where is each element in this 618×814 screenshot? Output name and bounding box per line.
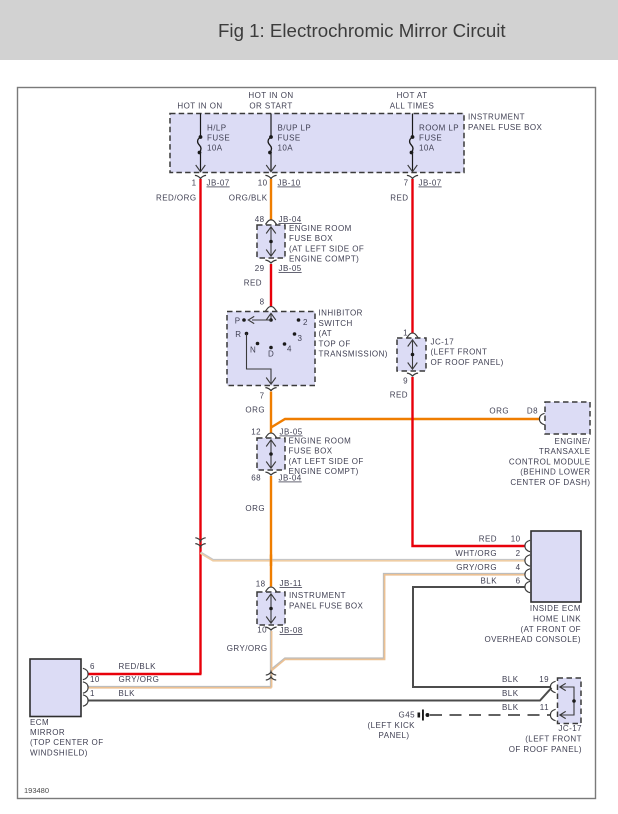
svg-text:10A: 10A xyxy=(278,144,294,153)
svg-text:FUSE BOX: FUSE BOX xyxy=(289,447,333,456)
svg-text:G45: G45 xyxy=(399,711,416,720)
svg-text:10: 10 xyxy=(511,535,521,544)
svg-text:ALL TIMES: ALL TIMES xyxy=(390,102,435,111)
svg-text:ENGINE ROOM: ENGINE ROOM xyxy=(289,437,352,446)
connector JC-17 dome pin 1 xyxy=(407,333,418,338)
fuse F1 connector cup xyxy=(195,175,206,178)
svg-text:HOT IN ON: HOT IN ON xyxy=(248,91,293,100)
svg-text:TRANSAXLE: TRANSAXLE xyxy=(539,447,591,456)
svg-text:10A: 10A xyxy=(419,144,435,153)
svg-text:R: R xyxy=(235,330,241,339)
fuse F1 H/LP xyxy=(198,135,203,154)
wire ORG (inhibitor to JB-05) xyxy=(270,392,272,434)
svg-text:OVERHEAD CONSOLE): OVERHEAD CONSOLE) xyxy=(484,635,581,644)
svg-text:6: 6 xyxy=(516,577,521,586)
connector JB-05 dome pin 12 xyxy=(265,433,276,438)
svg-text:(AT FRONT OF: (AT FRONT OF xyxy=(520,625,581,634)
svg-text:ENGINE ROOM: ENGINE ROOM xyxy=(289,224,352,233)
svg-text:ORG/BLK: ORG/BLK xyxy=(229,194,268,203)
svg-text:JB-08: JB-08 xyxy=(280,626,303,635)
svg-text:10A: 10A xyxy=(207,144,223,153)
svg-text:3: 3 xyxy=(298,334,303,343)
svg-text:BLK: BLK xyxy=(481,577,498,586)
svg-text:(AT LEFT SIDE OF: (AT LEFT SIDE OF xyxy=(289,457,364,466)
svg-text:1: 1 xyxy=(192,179,197,188)
svg-text:2: 2 xyxy=(516,549,521,558)
svg-text:68: 68 xyxy=(251,474,261,483)
connector JB-04 cup pin 29 xyxy=(265,260,276,263)
svg-text:HOME LINK: HOME LINK xyxy=(533,614,581,623)
svg-text:1: 1 xyxy=(403,329,408,338)
svg-text:MIRROR: MIRROR xyxy=(30,728,65,737)
svg-text:OR START: OR START xyxy=(249,102,292,111)
svg-text:JB-05: JB-05 xyxy=(280,428,303,437)
svg-text:29: 29 xyxy=(255,264,265,273)
connector JB-04 cup pin 68 xyxy=(265,472,276,475)
svg-text:INSIDE ECM: INSIDE ECM xyxy=(530,604,581,613)
svg-text:BLK: BLK xyxy=(119,689,136,698)
svg-text:BLK: BLK xyxy=(502,675,519,684)
svg-text:ROOM LP: ROOM LP xyxy=(419,124,459,133)
wire GRY/ORG tan xyxy=(88,575,525,688)
svg-text:PANEL): PANEL) xyxy=(379,731,410,740)
inhibitor pin 7 cup xyxy=(265,388,276,391)
svg-text:INSTRUMENT: INSTRUMENT xyxy=(289,591,346,600)
connector JB-04 dome pin 48 xyxy=(265,220,276,225)
svg-text:OF ROOF PANEL): OF ROOF PANEL) xyxy=(509,745,582,754)
junction box JB-04 (engine room fuse box) xyxy=(257,225,285,258)
svg-text:RED/BLK: RED/BLK xyxy=(119,662,157,671)
svg-text:D8: D8 xyxy=(527,407,538,416)
svg-text:ECM: ECM xyxy=(30,718,49,727)
ECM mirror box xyxy=(30,659,81,717)
svg-text:CENTER OF DASH): CENTER OF DASH) xyxy=(510,478,590,487)
svg-text:11: 11 xyxy=(540,703,549,712)
svg-text:HOT IN ON: HOT IN ON xyxy=(177,102,222,111)
svg-text:(LEFT FRONT: (LEFT FRONT xyxy=(525,734,582,743)
wire BLK dashed ground G45 xyxy=(430,714,551,716)
svg-text:JB-04: JB-04 xyxy=(279,215,302,224)
junction box JC-17 bottom xyxy=(558,678,582,724)
svg-text:6: 6 xyxy=(90,662,95,671)
connector JB-11 dome pin 18 xyxy=(265,587,276,592)
fuse F3 ROOM LP xyxy=(410,135,415,154)
svg-text:N: N xyxy=(250,346,256,355)
svg-text:FUSE: FUSE xyxy=(207,134,230,143)
connector D8 pin arc xyxy=(539,413,544,424)
svg-text:(TOP CENTER OF: (TOP CENTER OF xyxy=(30,738,104,747)
svg-text:RED: RED xyxy=(244,279,262,288)
fuse F3 out wire xyxy=(412,154,414,171)
svg-text:(LEFT FRONT: (LEFT FRONT xyxy=(431,348,488,357)
svg-text:1: 1 xyxy=(90,689,95,698)
inhibitor contact 4 xyxy=(283,342,287,346)
svg-text:ENGINE COMPT): ENGINE COMPT) xyxy=(289,255,359,264)
svg-text:HOT AT: HOT AT xyxy=(397,91,428,100)
svg-text:D: D xyxy=(268,350,274,359)
wire ORG/BLK vertical (fuse2 to JB-04) xyxy=(270,179,272,220)
inhibitor contact P xyxy=(242,318,246,322)
wire ORG branch to D8 xyxy=(271,419,540,428)
svg-text:H/LP: H/LP xyxy=(207,124,227,133)
svg-text:WINDSHIELD): WINDSHIELD) xyxy=(30,748,88,757)
junction box JB-05 (engine room fuse box) xyxy=(257,438,285,470)
svg-text:SWITCH: SWITCH xyxy=(319,319,353,328)
svg-text:GRY/ORG: GRY/ORG xyxy=(119,675,160,684)
svg-text:Fig 1: Electrochromic Mirror C: Fig 1: Electrochromic Mirror Circuit xyxy=(218,20,506,41)
wire ORG overpass at crossing xyxy=(270,555,272,567)
svg-text:GRY/ORG: GRY/ORG xyxy=(456,563,497,572)
title bar xyxy=(0,0,618,60)
svg-text:FUSE BOX: FUSE BOX xyxy=(289,234,333,243)
svg-text:7: 7 xyxy=(260,392,265,401)
svg-text:10: 10 xyxy=(258,179,268,188)
svg-text:ORG: ORG xyxy=(489,407,509,416)
svg-text:INHIBITOR: INHIBITOR xyxy=(319,309,363,318)
svg-text:FUSE: FUSE xyxy=(278,134,301,143)
svg-text:193480: 193480 xyxy=(24,786,49,795)
inhibitor contact N xyxy=(256,342,260,346)
inline connector on red wire xyxy=(195,538,205,541)
mirror pin arcs xyxy=(83,668,88,679)
svg-text:RED: RED xyxy=(390,391,408,400)
wire WHT/ORG tan xyxy=(201,553,526,561)
svg-text:4: 4 xyxy=(516,563,521,572)
svg-text:48: 48 xyxy=(255,215,265,224)
wire RED fuse3 to JC-17 xyxy=(411,179,413,334)
svg-text:CONTROL MODULE: CONTROL MODULE xyxy=(509,457,591,466)
engine/transaxle control module box xyxy=(545,402,590,434)
svg-text:19: 19 xyxy=(539,675,549,684)
svg-text:18: 18 xyxy=(256,580,266,589)
instrument panel fuse box (top) xyxy=(170,114,464,173)
svg-text:JB-05: JB-05 xyxy=(279,264,302,273)
svg-text:4: 4 xyxy=(287,345,292,354)
junction box JB-11 (instrument panel fuse box) xyxy=(257,592,285,625)
svg-text:ORG: ORG xyxy=(245,406,265,415)
JC-17 internal jumper xyxy=(560,687,574,715)
svg-text:9: 9 xyxy=(403,377,408,386)
svg-text:INSTRUMENT: INSTRUMENT xyxy=(468,113,525,122)
svg-text:RED: RED xyxy=(479,535,497,544)
fuse F1 arrow xyxy=(196,165,206,172)
svg-text:10: 10 xyxy=(257,626,267,635)
svg-text:(LEFT KICK: (LEFT KICK xyxy=(368,721,416,730)
home link pin arcs xyxy=(525,540,530,551)
inhibitor switch arrow in xyxy=(266,313,276,320)
svg-text:RED/ORG: RED/ORG xyxy=(156,194,197,203)
svg-text:BLK: BLK xyxy=(502,689,519,698)
wire RED/ORG vertical xyxy=(199,179,201,674)
wire BLK from mirror pin 1 xyxy=(88,688,552,701)
wire RED (JB-04 to inhibitor switch) xyxy=(270,264,272,307)
inhibitor contact 3 xyxy=(293,332,297,336)
svg-text:JB-10: JB-10 xyxy=(278,179,301,188)
svg-text:JC-17: JC-17 xyxy=(431,338,455,347)
fuse F3 ROOM LP feed wire xyxy=(412,114,414,137)
svg-text:(AT: (AT xyxy=(319,329,333,338)
wire RED/BLK horizontal to mirror xyxy=(88,673,202,675)
inhibitor contact D xyxy=(269,346,273,350)
svg-text:PANEL FUSE BOX: PANEL FUSE BOX xyxy=(468,123,543,132)
junction box JC-17 top xyxy=(397,338,426,371)
svg-text:12: 12 xyxy=(251,428,261,437)
wire RED to home link pin 10 xyxy=(413,377,526,546)
svg-text:TOP OF: TOP OF xyxy=(319,339,351,348)
svg-text:OF ROOF PANEL): OF ROOF PANEL) xyxy=(431,358,504,367)
svg-text:JB-07: JB-07 xyxy=(207,179,230,188)
fuse F3 connector cup xyxy=(407,175,418,178)
fuse F2 arrow xyxy=(266,165,276,172)
svg-text:8: 8 xyxy=(260,298,265,307)
fuse F1 H/LP feed wire xyxy=(200,114,202,137)
svg-text:BLK: BLK xyxy=(502,703,519,712)
inline connector on GRY/ORG xyxy=(266,672,276,675)
svg-text:ORG: ORG xyxy=(245,504,265,513)
connector JB-08 cup pin 10 xyxy=(265,627,276,630)
fuse F2 out wire xyxy=(270,154,272,171)
inhibitor switch box xyxy=(227,312,315,386)
svg-text:B/UP LP: B/UP LP xyxy=(278,124,312,133)
fuse F2 connector cup xyxy=(265,175,276,178)
fuse F2 B/UP LP feed wire xyxy=(270,114,272,137)
svg-text:RED: RED xyxy=(390,194,408,203)
wire WHT/ORG gray base xyxy=(201,553,526,561)
svg-text:WHT/ORG: WHT/ORG xyxy=(455,549,497,558)
ground G45 symbol xyxy=(418,713,421,718)
svg-text:(BEHIND LOWER: (BEHIND LOWER xyxy=(520,468,590,477)
wire ORG (JB-05 to JB-11) xyxy=(270,476,272,587)
fuse F2 B/UP LP xyxy=(268,135,273,154)
inhibitor contact 2 xyxy=(297,318,301,322)
svg-text:(AT LEFT SIDE OF: (AT LEFT SIDE OF xyxy=(289,244,364,253)
fuse F1 out wire xyxy=(200,154,202,171)
svg-text:JB-11: JB-11 xyxy=(280,579,303,588)
svg-text:JC-17: JC-17 xyxy=(558,724,582,733)
svg-text:FUSE: FUSE xyxy=(419,134,442,143)
svg-text:GRY/ORG: GRY/ORG xyxy=(227,644,268,653)
JC-17 pin arcs xyxy=(550,681,555,692)
svg-text:10: 10 xyxy=(90,675,100,684)
svg-text:2: 2 xyxy=(303,318,308,327)
svg-text:TRANSMISSION): TRANSMISSION) xyxy=(319,350,388,359)
svg-text:JB-07: JB-07 xyxy=(419,179,442,188)
wire GRY/ORG gray base xyxy=(88,574,525,687)
inhibitor switch R to output path xyxy=(247,334,272,384)
fuse F3 arrow xyxy=(408,165,418,172)
svg-text:P: P xyxy=(235,317,241,326)
svg-text:ENGINE COMPT): ENGINE COMPT) xyxy=(289,467,359,476)
svg-text:ENGINE/: ENGINE/ xyxy=(554,437,590,446)
inhibitor switch wiper arrow to P xyxy=(269,318,273,322)
svg-text:7: 7 xyxy=(404,179,409,188)
wire BLK home link pin 6 xyxy=(413,587,551,687)
connector JC-17 cup pin 9 xyxy=(407,373,418,376)
svg-text:PANEL FUSE BOX: PANEL FUSE BOX xyxy=(289,601,364,610)
inside ECM home link box xyxy=(531,531,581,602)
inhibitor contact R xyxy=(245,332,249,336)
